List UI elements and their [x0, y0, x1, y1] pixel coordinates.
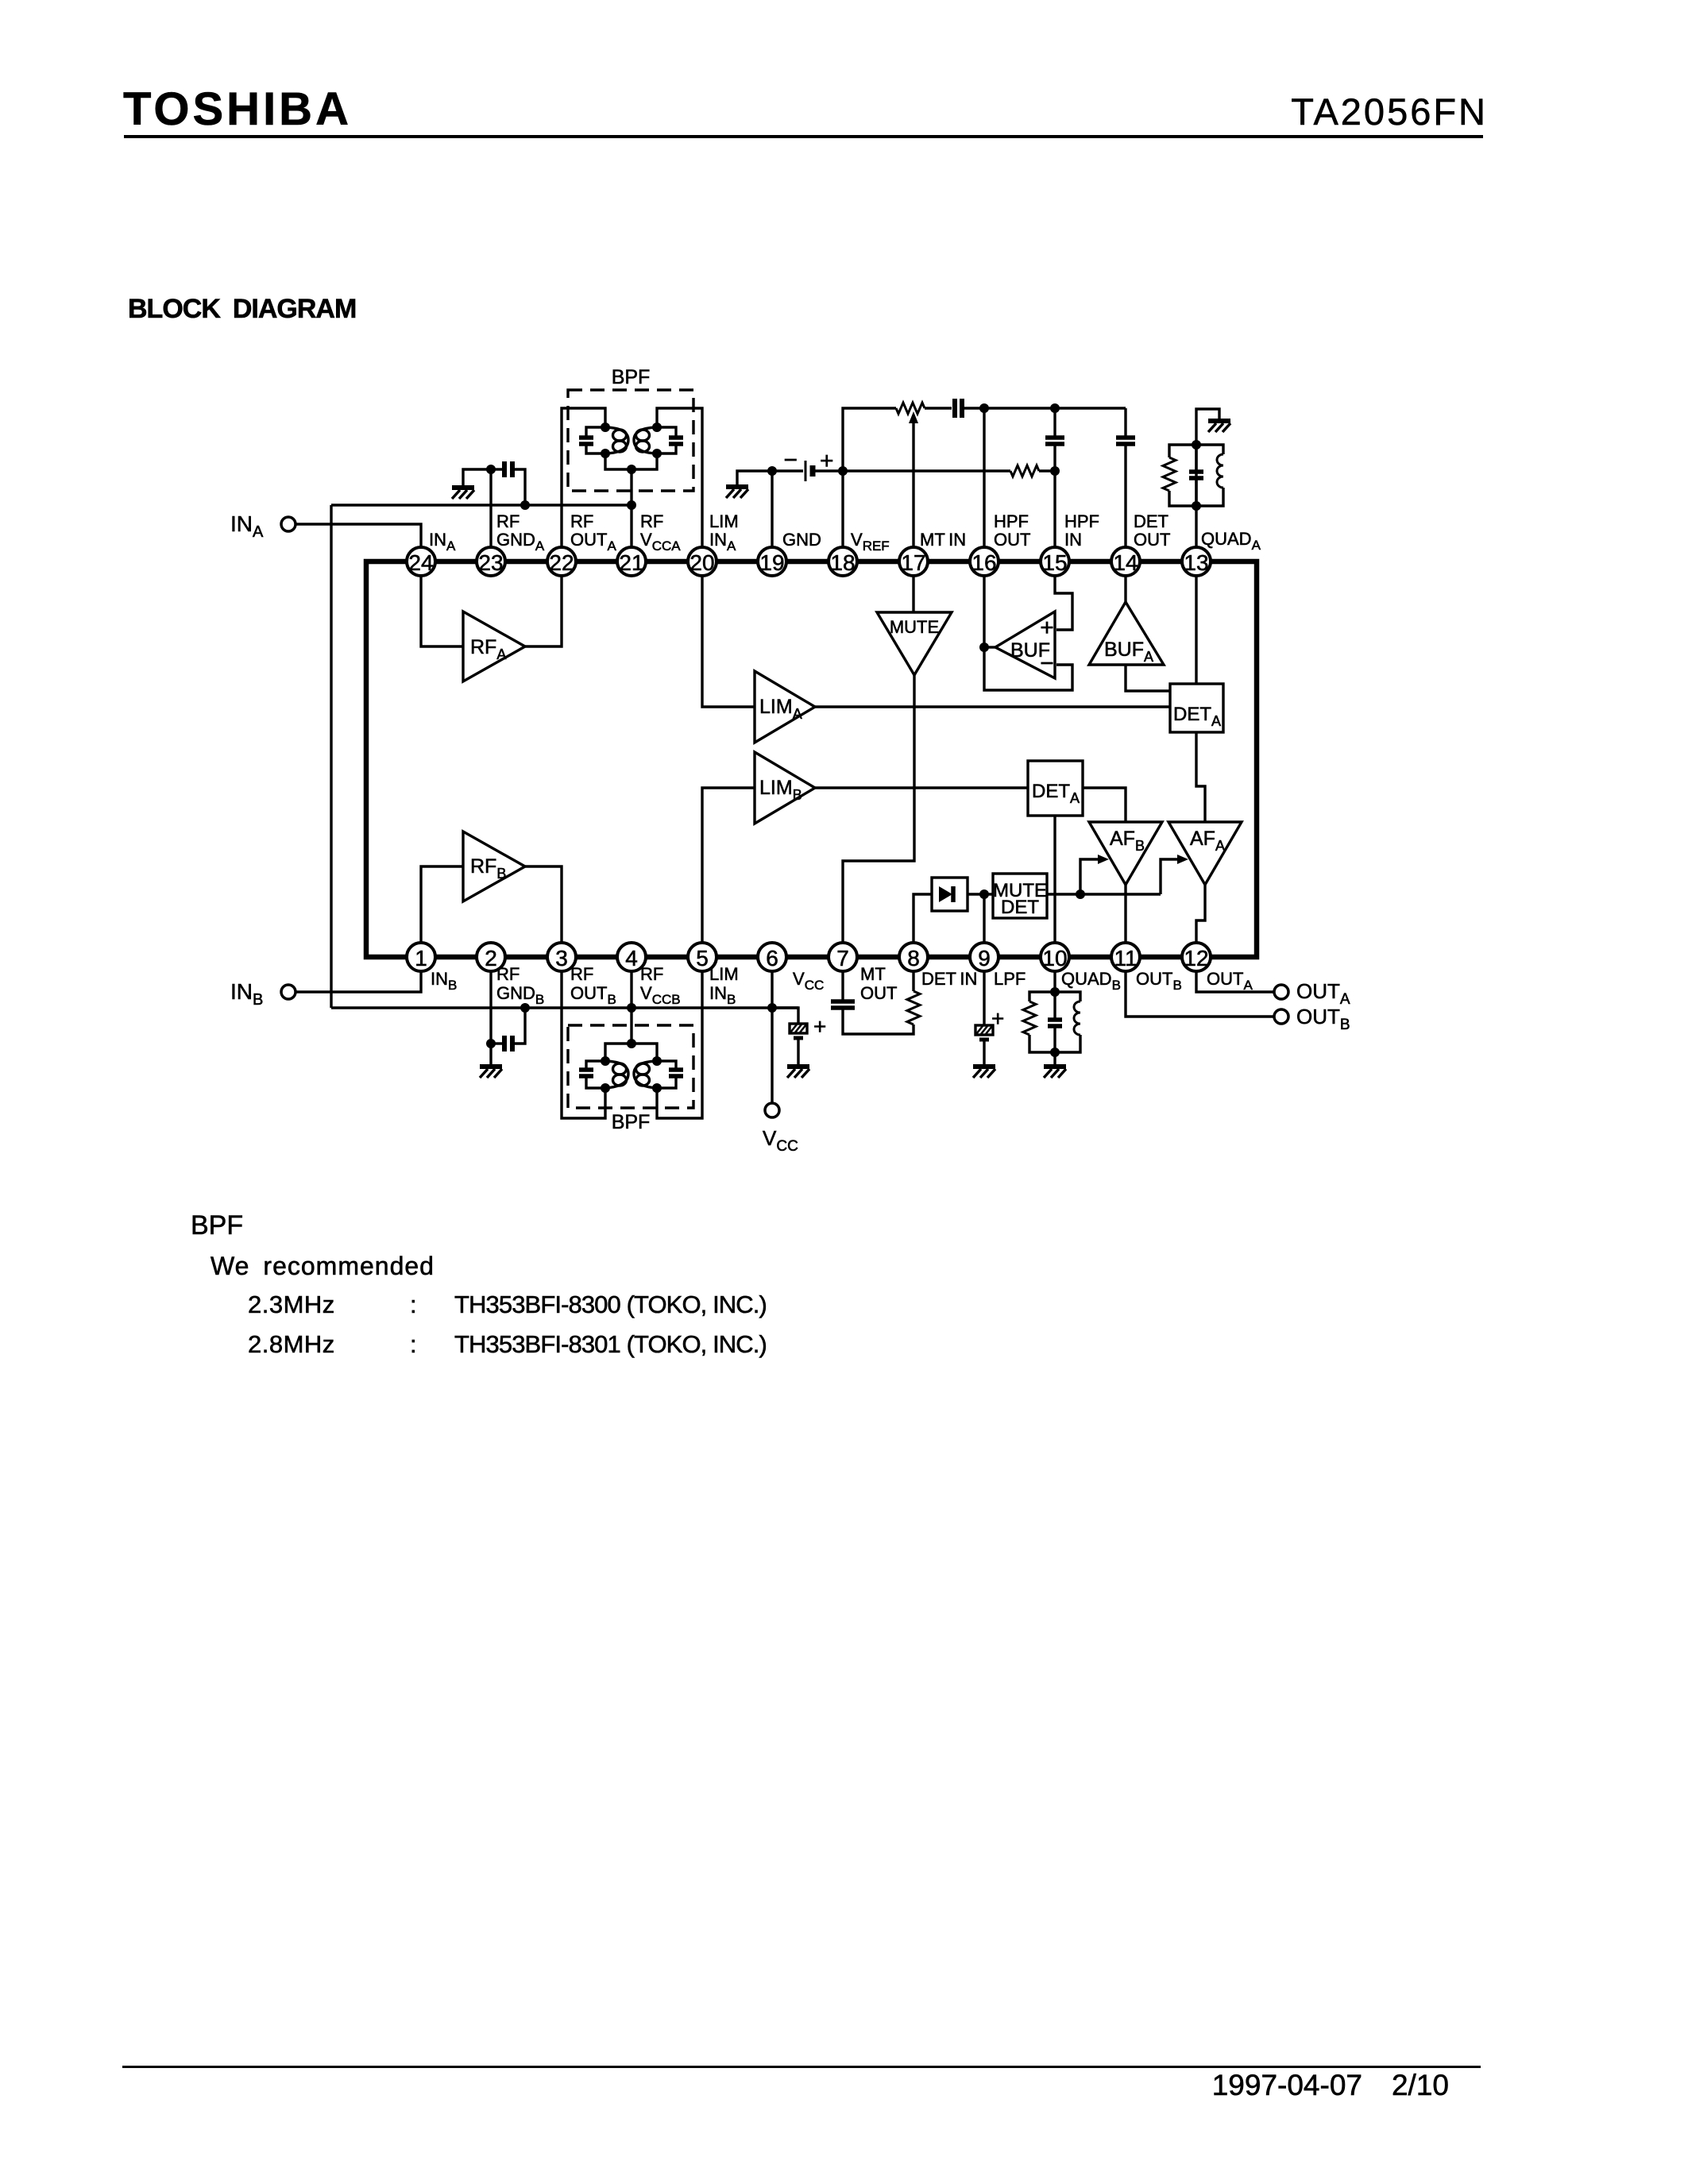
svg-text:GND: GND [782, 530, 821, 550]
svg-text:23: 23 [478, 550, 503, 575]
svg-text:MUTE: MUTE [890, 617, 939, 637]
svg-text:OUT: OUT [994, 530, 1030, 550]
svg-text:RF: RF [496, 964, 520, 984]
svg-text:+: + [813, 1014, 826, 1039]
svg-text:BPF: BPF [612, 1111, 651, 1133]
svg-text:2: 2 [485, 946, 497, 970]
svg-text:−: − [783, 447, 798, 473]
svg-text:OUT: OUT [1134, 530, 1170, 550]
svg-text:+: + [991, 1006, 1004, 1031]
svg-text:BPF: BPF [191, 1210, 243, 1241]
svg-text:RF: RF [570, 511, 593, 531]
svg-text:IN: IN [1064, 530, 1082, 550]
svg-text:We recommended: We recommended [211, 1252, 435, 1280]
svg-text:1: 1 [415, 946, 427, 970]
svg-text:MT IN: MT IN [920, 530, 966, 550]
svg-text:2.8MHz:TH353BFI-8301 (TOKO, IN: 2.8MHz:TH353BFI-8301 (TOKO, INC.) [248, 1330, 767, 1358]
svg-text:3: 3 [555, 946, 568, 970]
svg-text:18: 18 [830, 550, 855, 575]
svg-text:+: + [820, 448, 834, 474]
svg-text:BPF: BPF [612, 366, 651, 388]
svg-text:11: 11 [1114, 946, 1137, 970]
svg-text:1997-04-07 2/10: 1997-04-07 2/10 [1212, 2069, 1449, 2101]
svg-text:22: 22 [549, 550, 574, 575]
svg-text:4: 4 [625, 946, 638, 970]
svg-text:5: 5 [696, 946, 709, 970]
svg-text:TOSHIBA: TOSHIBA [123, 83, 352, 135]
svg-text:RF: RF [570, 964, 593, 984]
svg-text:RF: RF [640, 511, 663, 531]
svg-text:DET: DET [1001, 897, 1039, 918]
svg-text:LIM: LIM [709, 964, 739, 984]
svg-text:8: 8 [907, 946, 920, 970]
svg-text:−: − [1040, 650, 1054, 677]
svg-text:BLOCK DIAGRAM: BLOCK DIAGRAM [128, 294, 356, 324]
svg-text:+: + [1040, 615, 1054, 641]
svg-text:17: 17 [901, 550, 925, 575]
svg-text:LPF: LPF [994, 969, 1026, 989]
svg-text:15: 15 [1042, 550, 1067, 575]
svg-text:12: 12 [1184, 946, 1208, 970]
svg-text:14: 14 [1113, 550, 1138, 575]
svg-text:DET IN: DET IN [921, 969, 977, 989]
svg-text:LIM: LIM [709, 511, 739, 531]
svg-text:6: 6 [766, 946, 778, 970]
svg-text:HPF: HPF [994, 511, 1029, 531]
svg-text:DET: DET [1134, 511, 1168, 531]
svg-text:13: 13 [1184, 550, 1208, 575]
svg-text:RF: RF [640, 964, 663, 984]
svg-text:7: 7 [836, 946, 849, 970]
svg-text:9: 9 [978, 946, 991, 970]
svg-text:OUT: OUT [860, 983, 897, 1003]
svg-text:24: 24 [408, 550, 433, 575]
svg-text:MT: MT [860, 964, 886, 984]
svg-text:TA2056FN: TA2056FN [1291, 91, 1488, 133]
svg-text:19: 19 [759, 550, 784, 575]
svg-text:21: 21 [619, 550, 643, 575]
svg-text:20: 20 [689, 550, 714, 575]
svg-text:RF: RF [496, 511, 520, 531]
svg-text:10: 10 [1042, 946, 1067, 970]
svg-text:2.3MHz:TH353BFI-8300 (TOKO, IN: 2.3MHz:TH353BFI-8300 (TOKO, INC.) [248, 1291, 767, 1318]
svg-text:16: 16 [971, 550, 996, 575]
svg-text:HPF: HPF [1064, 511, 1099, 531]
